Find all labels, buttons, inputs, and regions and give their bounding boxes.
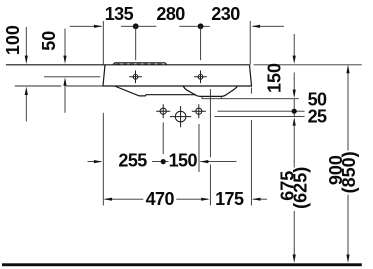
drain stub	[202, 96, 221, 98]
top dim right outside arrow	[252, 25, 260, 28]
right chain column 50/25 segment	[293, 99, 295, 117]
dim 50 lower line with up arrow	[64, 81, 66, 113]
stem under right chain dot	[200, 26, 202, 60]
svg-text:280: 280	[156, 4, 185, 24]
right chain column 150 segment with down arrow	[293, 73, 295, 95]
dim row 470/175 line segments	[105, 198, 267, 200]
stem under fixing hole right	[198, 124, 200, 172]
svg-text:100: 100	[3, 25, 23, 55]
bowl outline	[183, 86, 237, 96]
right extension line (basin right edge, lower)	[250, 88, 252, 206]
dim 900(850) upper line with up arrow	[347, 68, 349, 150]
left extension line (basin left edge, lower)	[102, 113, 104, 206]
svg-text:255: 255	[118, 151, 147, 171]
drain level extension line	[215, 116, 305, 118]
washbasin body outline	[103, 65, 252, 86]
470 right inside arrow	[201, 198, 209, 201]
dim 100 lower line with up arrow	[25, 90, 27, 121]
dim 50 upper line with down arrow	[64, 29, 66, 61]
chain dot 255/150	[161, 159, 166, 164]
floor line	[2, 263, 362, 266]
svg-text:230: 230	[211, 4, 240, 24]
150 right outside arrow	[200, 160, 208, 163]
470 left inside arrow	[104, 198, 112, 201]
svg-text:150: 150	[169, 151, 198, 171]
drain centerline	[209, 89, 211, 206]
fixing hole crosshair right	[192, 104, 206, 118]
svg-text:(625): (625)	[290, 167, 310, 209]
svg-text:150: 150	[265, 63, 285, 93]
chain dot 50/25	[292, 109, 297, 114]
stem under fixing hole left	[162, 122, 164, 154]
svg-text:50: 50	[39, 31, 59, 51]
faucet hole crosshair right	[194, 71, 207, 84]
top extension line left	[102, 21, 104, 65]
dim row 255/150 line segments	[88, 161, 237, 163]
dim 100 upper line with down arrow	[25, 27, 27, 60]
washbasin body bottom line left extension	[15, 85, 103, 87]
dim 675(625) lower line to floor with down arrow	[293, 211, 295, 259]
washbasin rim top line	[6, 64, 250, 66]
svg-text:25: 25	[308, 107, 327, 127]
top dim chain dot left	[133, 23, 139, 29]
svg-text:470: 470	[146, 189, 175, 209]
right chain column 150/50/25 upper segment with down arrow	[293, 34, 295, 60]
svg-text:(850): (850)	[339, 151, 359, 193]
25 bottom up arrow with tail	[293, 117, 296, 125]
ledge (soap shelf) raised profile	[113, 63, 167, 65]
apron under-profile	[115, 86, 197, 96]
ledge hidden dashed line	[116, 63, 164, 65]
stub bottom extension line	[202, 98, 299, 100]
top dim chain dot right	[198, 23, 204, 29]
svg-text:135: 135	[105, 4, 134, 24]
stem under left chain dot	[135, 26, 137, 60]
dim 900(850) lower line to floor with down arrow	[347, 195, 349, 260]
top dim left outside arrow	[94, 25, 102, 28]
50-level extension line	[44, 76, 100, 78]
svg-text:175: 175	[215, 189, 244, 209]
drain hole crosshair center	[170, 106, 191, 127]
rim extension line right	[254, 64, 362, 66]
255 left outside arrow	[94, 160, 102, 163]
top dimension line segments	[70, 25, 284, 27]
fixing hole level extension line	[218, 110, 305, 112]
faucet hole crosshair left	[129, 71, 142, 84]
fixing hole crosshair left	[156, 104, 170, 118]
175 right outside arrow	[252, 198, 260, 201]
top extension line right	[249, 21, 251, 65]
